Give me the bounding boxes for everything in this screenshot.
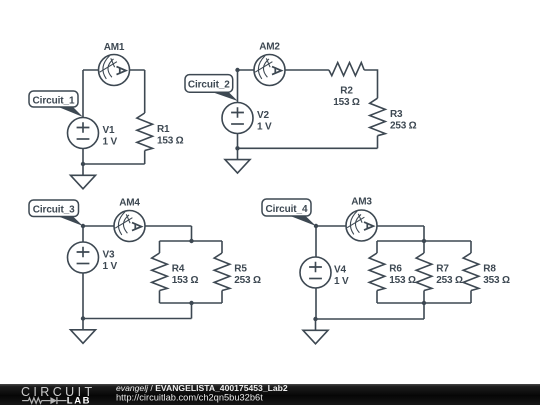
resistor R1 [137,113,153,151]
callout Circuit_2 box [185,75,233,93]
svg-text:153 Ω: 153 Ω [389,275,416,286]
resistor R6 [369,253,385,291]
wire circuit3 bottom rail [83,318,192,320]
wire circuit4 left [315,226,317,319]
wire circuit2 left [237,70,239,148]
logo diode [50,397,57,404]
svg-text:R1: R1 [157,124,170,135]
wire circuit3 right drop [191,226,193,241]
svg-text:1 V: 1 V [334,276,349,287]
callout Circuit_3 box [29,200,79,217]
svg-text:V3: V3 [103,250,115,261]
node junction circuit4 top left [314,224,318,228]
ammeter AM4 [114,211,145,242]
wire circuit3 top bus [160,240,223,242]
resistor R4 [152,253,168,291]
callout Circuit_4 tail [289,216,316,227]
wire circuit3 bottom bus [160,302,223,304]
svg-text:LAB: LAB [67,395,91,405]
logo wire mid [42,400,51,402]
wire circuit3 bottom drop [191,303,193,319]
node junction circuit4 rail [313,317,317,321]
wire circuit2 top right [364,70,377,98]
wire circuit1 bottom [83,163,145,165]
resistor R7 [416,253,432,291]
logo wire right [57,400,67,402]
wire circuit1 right upper [144,70,146,113]
wire circuit3 top [83,225,192,227]
node junction circuit3 bus top [189,239,193,243]
wire circuit4 top bus [377,240,471,242]
resistor R5 [214,253,230,291]
ground circuit1 [71,164,96,189]
svg-text:153 Ω: 153 Ω [172,275,199,286]
svg-text:1 V: 1 V [103,136,118,147]
wire circuit1 left [82,70,84,164]
callout Circuit_1 box [29,91,78,107]
svg-text:R7: R7 [436,264,449,275]
voltage source V3 [68,242,99,273]
callout Circuit_1 tail [56,106,83,117]
wire circuit3 left branch lower [159,291,161,304]
svg-text:153 Ω: 153 Ω [157,135,184,146]
callout Circuit_2 tail [211,92,238,102]
resistor R8 [463,253,479,291]
ammeter AM1 [99,55,130,86]
wire circuit1 right lower [144,151,146,165]
svg-text:evangelj / EVANGELISTA_4001754: evangelj / EVANGELISTA_400175453_Lab2 [116,383,288,393]
svg-text:R4: R4 [172,264,185,275]
svg-text:153 Ω: 153 Ω [333,97,360,108]
ground circuit2 [225,148,250,173]
svg-text:253 Ω: 253 Ω [234,275,261,286]
ammeter AM2 [254,55,285,86]
svg-text:Circuit_3: Circuit_3 [33,205,75,216]
wire circuit3 left branch upper [159,241,161,253]
wire circuit4 branch R7 lower [423,291,425,304]
wire circuit4 bottom bus [377,302,471,304]
voltage source V1 [68,118,99,149]
wire circuit4 branch R6 upper [376,241,378,253]
wire circuit4 branch R7 upper [423,241,425,253]
svg-text:R5: R5 [234,264,247,275]
node junction circuit1 [81,162,85,166]
resistor R2 [329,63,364,76]
svg-text:Circuit_2: Circuit_2 [188,80,230,91]
svg-text:Circuit_1: Circuit_1 [33,95,75,106]
wire circuit3 right branch upper [221,241,223,253]
svg-text:http://circuitlab.com/ch2qn5bu: http://circuitlab.com/ch2qn5bu32b6t [116,392,263,402]
ground circuit4 [303,319,328,344]
svg-text:AM4: AM4 [119,197,140,208]
resistor R3 [370,98,386,136]
logo wire lead left [22,400,28,402]
voltage source V2 [222,103,253,134]
node junction circuit2 top [235,68,239,72]
wire circuit3 right branch lower [221,291,223,304]
wire circuit4 bottom drop [423,303,425,319]
svg-text:R2: R2 [340,85,353,96]
svg-text:1 V: 1 V [103,261,118,272]
svg-text:V4: V4 [334,265,346,276]
wire circuit4 branch R6 lower [376,291,378,304]
ammeter AM3 [346,210,377,241]
wire circuit4 bottom rail [316,318,425,320]
node junction circuit4 bus bottom [422,301,426,305]
wire circuit4 branch R8 lower [470,291,472,304]
voltage source V4 [300,257,331,288]
ground circuit3 [71,319,96,344]
node junction circuit3 bus bottom [189,301,193,305]
wire circuit2 top [238,69,329,71]
svg-text:253 Ω: 253 Ω [390,120,417,131]
svg-text:253 Ω: 253 Ω [436,275,463,286]
wire circuit3 left [82,226,84,319]
node junction circuit3 top left [81,224,85,228]
wire circuit2 bottom [238,147,378,149]
svg-text:AM3: AM3 [351,197,372,208]
wire circuit4 top [316,225,424,227]
svg-text:Circuit_4: Circuit_4 [266,204,308,215]
svg-text:R6: R6 [389,264,402,275]
svg-text:AM2: AM2 [259,41,280,52]
wire circuit1 top [83,69,145,71]
wire circuit4 right drop [423,226,425,241]
svg-text:AM1: AM1 [104,42,125,53]
svg-text:353 Ω: 353 Ω [483,275,510,286]
callout Circuit_3 tail [56,216,83,227]
svg-text:R3: R3 [390,109,403,120]
node junction circuit4 bus top [422,239,426,243]
wire circuit4 branch R8 upper [470,241,472,253]
node junction circuit3 rail [81,316,85,320]
wire circuit2 right lower [377,136,379,149]
logo resistor zigzag [28,398,41,403]
node junction circuit2 bottom [235,146,239,150]
callout Circuit_4 box [262,199,311,216]
svg-text:V2: V2 [257,110,269,121]
svg-text:R8: R8 [483,264,496,275]
svg-text:1 V: 1 V [257,121,272,132]
svg-text:V1: V1 [103,125,115,136]
